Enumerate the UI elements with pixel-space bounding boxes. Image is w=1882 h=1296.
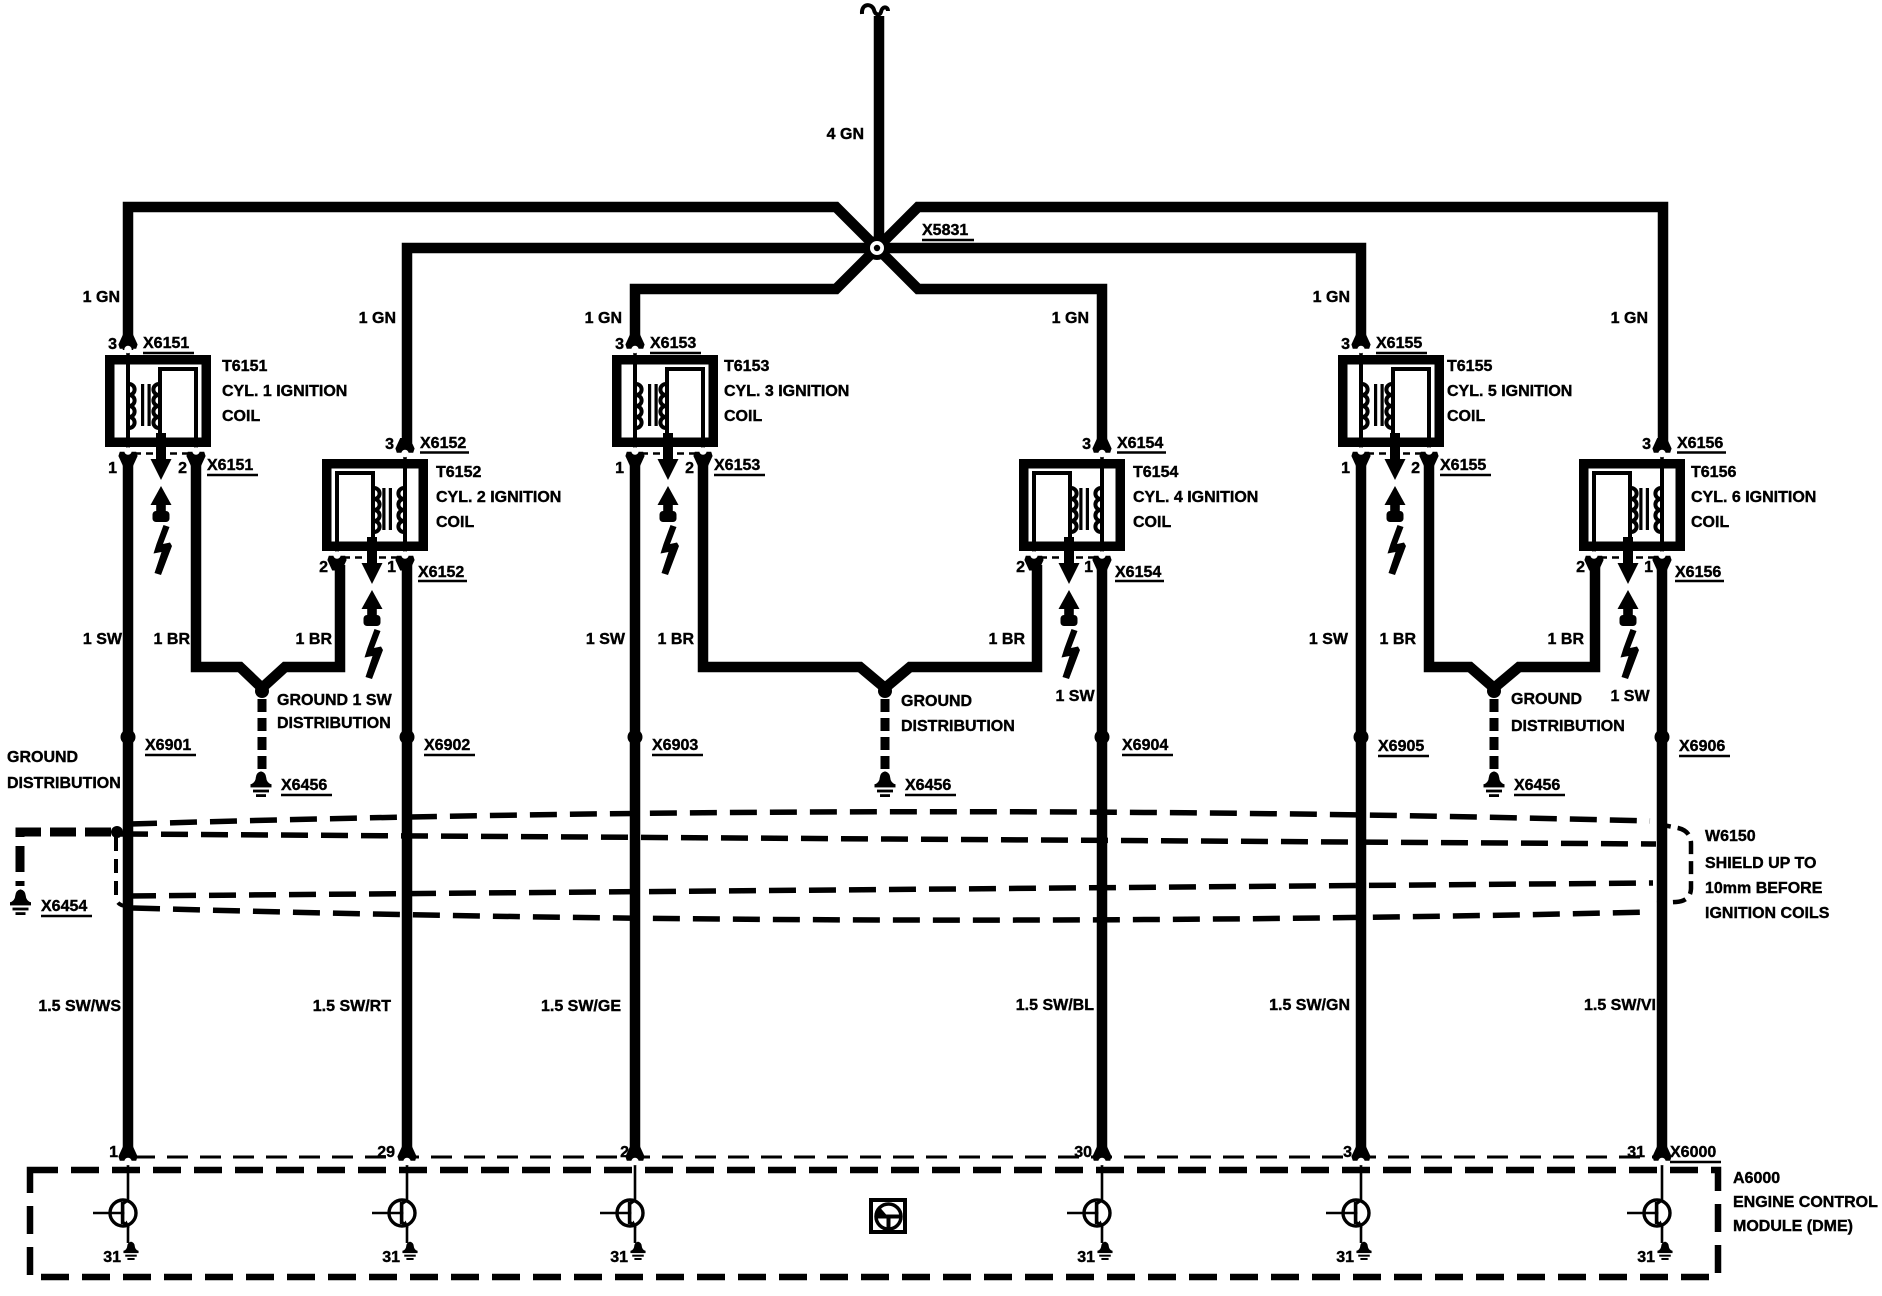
svg-text:1 GN: 1 GN [1313,289,1350,306]
svg-text:GROUND 1 SW: GROUND 1 SW [277,692,393,709]
svg-text:SHIELD UP TO: SHIELD UP TO [1705,855,1816,872]
svg-text:X6152: X6152 [420,435,466,452]
svg-text:X6156: X6156 [1677,435,1723,452]
svg-text:GROUND: GROUND [901,693,972,710]
svg-text:COIL: COIL [724,408,762,425]
svg-text:GROUND: GROUND [7,749,78,766]
svg-text:X6456: X6456 [281,777,327,794]
svg-text:31: 31 [1336,1249,1354,1266]
svg-text:1 BR: 1 BR [154,631,191,648]
svg-text:1 SW: 1 SW [1610,688,1650,705]
svg-text:T6153: T6153 [724,358,769,375]
svg-text:T6156: T6156 [1691,464,1736,481]
svg-text:2: 2 [620,1144,629,1161]
svg-text:1 SW: 1 SW [1055,688,1095,705]
svg-text:X6454: X6454 [41,898,87,915]
svg-text:3: 3 [108,336,117,353]
svg-text:T6154: T6154 [1133,464,1178,481]
svg-text:GROUND: GROUND [1511,691,1582,708]
svg-text:1 GN: 1 GN [1611,310,1648,327]
svg-text:X6456: X6456 [1514,777,1560,794]
svg-text:1.5 SW/GN: 1.5 SW/GN [1269,997,1350,1014]
svg-text:COIL: COIL [1691,514,1729,531]
svg-text:X6155: X6155 [1376,335,1422,352]
svg-text:1: 1 [1084,559,1093,576]
svg-text:1 BR: 1 BR [1548,631,1585,648]
svg-text:30: 30 [1074,1144,1092,1161]
svg-text:CYL. 5 IGNITION: CYL. 5 IGNITION [1447,383,1572,400]
svg-text:31: 31 [610,1249,628,1266]
svg-text:COIL: COIL [436,514,474,531]
svg-text:31: 31 [1637,1249,1655,1266]
svg-text:X6151: X6151 [143,335,189,352]
svg-text:X6905: X6905 [1378,738,1424,755]
svg-text:X6153: X6153 [714,457,760,474]
svg-text:3: 3 [1343,1144,1352,1161]
svg-text:29: 29 [377,1144,395,1161]
svg-text:X6153: X6153 [650,335,696,352]
svg-text:1: 1 [387,559,396,576]
svg-text:3: 3 [1341,336,1350,353]
svg-text:X6156: X6156 [1675,564,1721,581]
svg-text:CYL. 1 IGNITION: CYL. 1 IGNITION [222,383,347,400]
svg-text:1.5 SW/BL: 1.5 SW/BL [1016,997,1094,1014]
svg-text:X6904: X6904 [1122,737,1168,754]
svg-text:3: 3 [1082,436,1091,453]
svg-text:2: 2 [1411,460,1420,477]
svg-text:DISTRIBUTION: DISTRIBUTION [1511,718,1625,735]
svg-text:1 BR: 1 BR [296,631,333,648]
svg-text:COIL: COIL [1447,408,1485,425]
svg-text:2: 2 [685,460,694,477]
svg-text:X6154: X6154 [1115,564,1161,581]
svg-text:2: 2 [319,559,328,576]
svg-text:1: 1 [1644,559,1653,576]
svg-text:CYL. 6 IGNITION: CYL. 6 IGNITION [1691,489,1816,506]
svg-text:X6151: X6151 [207,457,253,474]
svg-text:3: 3 [615,336,624,353]
svg-text:X6154: X6154 [1117,435,1163,452]
svg-text:2: 2 [178,460,187,477]
svg-text:X6903: X6903 [652,737,698,754]
svg-text:2: 2 [1576,559,1585,576]
svg-text:IGNITION COILS: IGNITION COILS [1705,905,1830,922]
svg-text:1: 1 [615,460,624,477]
svg-text:DISTRIBUTION: DISTRIBUTION [901,718,1015,735]
svg-text:2: 2 [1016,559,1025,576]
svg-text:1 GN: 1 GN [585,310,622,327]
svg-text:X6901: X6901 [145,737,191,754]
svg-text:DISTRIBUTION: DISTRIBUTION [7,775,121,792]
svg-text:1: 1 [1341,460,1350,477]
svg-text:A6000: A6000 [1733,1170,1780,1187]
svg-text:X6906: X6906 [1679,738,1725,755]
svg-text:COIL: COIL [222,408,260,425]
svg-text:31: 31 [1627,1144,1645,1161]
svg-text:X6000: X6000 [1670,1144,1716,1161]
svg-text:3: 3 [1642,436,1651,453]
svg-text:MODULE (DME): MODULE (DME) [1733,1218,1853,1235]
svg-text:X6155: X6155 [1440,457,1486,474]
svg-text:3: 3 [385,436,394,453]
svg-text:W6150: W6150 [1705,828,1756,845]
svg-text:1 GN: 1 GN [1052,310,1089,327]
svg-text:T6155: T6155 [1447,358,1492,375]
svg-text:DISTRIBUTION: DISTRIBUTION [277,715,391,732]
svg-text:T6152: T6152 [436,464,481,481]
svg-text:COIL: COIL [1133,514,1171,531]
svg-text:1 SW: 1 SW [83,631,123,648]
svg-text:CYL. 4 IGNITION: CYL. 4 IGNITION [1133,489,1258,506]
svg-text:1 GN: 1 GN [83,289,120,306]
svg-text:1 BR: 1 BR [658,631,695,648]
svg-text:X6152: X6152 [418,564,464,581]
svg-text:1.5 SW/RT: 1.5 SW/RT [313,998,391,1015]
svg-text:1.5 SW/VI: 1.5 SW/VI [1584,997,1656,1014]
svg-text:1 BR: 1 BR [989,631,1026,648]
svg-text:31: 31 [103,1249,121,1266]
svg-text:31: 31 [382,1249,400,1266]
svg-text:1.5 SW/WS: 1.5 SW/WS [38,998,121,1015]
svg-text:X6902: X6902 [424,737,470,754]
svg-text:1 GN: 1 GN [359,310,396,327]
svg-text:1 BR: 1 BR [1380,631,1417,648]
svg-text:4 GN: 4 GN [827,126,864,143]
svg-text:X5831: X5831 [922,222,968,239]
svg-text:X6456: X6456 [905,777,951,794]
svg-text:10mm BEFORE: 10mm BEFORE [1705,880,1823,897]
svg-text:CYL. 3 IGNITION: CYL. 3 IGNITION [724,383,849,400]
svg-text:1: 1 [108,460,117,477]
svg-text:1: 1 [109,1144,118,1161]
svg-text:ENGINE CONTROL: ENGINE CONTROL [1733,1194,1878,1211]
svg-text:31: 31 [1077,1249,1095,1266]
svg-text:T6151: T6151 [222,358,267,375]
svg-text:1.5 SW/GE: 1.5 SW/GE [541,998,621,1015]
svg-text:CYL. 2 IGNITION: CYL. 2 IGNITION [436,489,561,506]
svg-text:1 SW: 1 SW [586,631,626,648]
svg-text:1 SW: 1 SW [1309,631,1349,648]
